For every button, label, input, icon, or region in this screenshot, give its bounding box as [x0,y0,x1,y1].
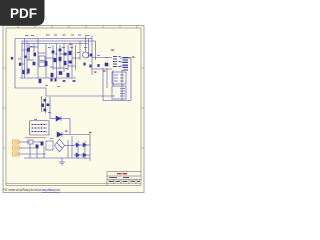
capacitor C15 [42,104,45,108]
wire branch v21 [106,68,108,88]
wire link b [29,46,38,48]
IC U2 pins [45,61,48,66]
wire link g [60,53,68,55]
resistor R5 [59,57,62,61]
connector stub J1 [11,57,13,60]
IC U1 [39,56,45,67]
wire P3 out [19,153,46,155]
PDF badge [0,0,45,26]
wire bridge rail [89,135,91,162]
wire branch v12 [67,45,69,70]
wire drop d [67,140,69,158]
connector J3 [112,86,126,99]
connector P3 [13,152,20,156]
wire branch v19 [95,41,97,60]
title text red [117,173,122,174]
wire mains red [25,137,46,139]
resistor R9 [63,80,66,82]
capacitor C10 [67,73,70,77]
tiny blue text specks [18,35,108,139]
resistor R11 [36,145,39,149]
label R9 [94,72,97,73]
transformer T1 secondary [123,58,129,71]
sheet border frame [6,28,141,186]
wire top bus 1 [15,38,92,40]
component cluster fills [11,48,108,107]
wire branch v15 [79,41,81,60]
wire branch v7 [45,44,47,79]
wire ground bus right [103,100,131,102]
label BR1 [89,132,92,133]
wire drop b [36,149,38,158]
varistor RV1 [41,142,44,146]
wire link e [38,52,46,54]
wire transformer outputs [120,57,131,59]
wire branch v10 [59,45,61,70]
wire secondary out [128,57,131,59]
svg-text:PDF: PDF [10,6,37,21]
wire link j [68,65,76,67]
wire top bus 3 [22,43,88,45]
label T1 [111,50,114,51]
wire top bus 2 [22,40,96,42]
wire link h [72,57,80,59]
wire enclosure left [14,39,16,89]
label C13 [103,71,106,72]
connector J2 [112,72,126,84]
capacitor C6 [64,53,67,56]
wire lower bus [24,157,90,159]
connector P2 [13,146,20,150]
wire branch v3 [26,41,28,75]
wire branch v20 [102,68,104,101]
transformer T1 [113,57,121,67]
title row text [109,177,141,182]
wire link d [20,63,25,65]
diode bridge diamond D7 [55,139,65,152]
zone tick marks left/right [3,68,144,148]
capacitor C9 [51,73,54,77]
wire drop e [71,136,73,158]
title block [107,172,141,186]
wire branch v16 [85,36,87,53]
capacitor C4 [52,51,55,54]
wire link c [27,59,34,61]
capacitor C13 [105,63,109,67]
wire link f [46,57,53,59]
optocoupler U3 [46,141,53,150]
wire diode2 out [62,134,90,136]
wire branch v11 [63,44,65,73]
wire link a [22,49,29,51]
wire inner bus [20,77,76,79]
wire branch v22 [112,70,114,86]
transistor Q1 [83,52,89,58]
wire drop a [29,144,31,158]
wire branch v2 [24,39,26,79]
wire right rail [130,58,132,101]
terminal block TB1 [30,121,50,136]
inner bottom frame line [6,183,141,185]
diode D1 [19,63,21,66]
resistor R1 [33,53,36,57]
resistor R8 [39,79,42,83]
wire branch v23 [121,70,123,101]
capacitor C11 [50,79,52,82]
svg-text:PDF created with pdfFactory tr: PDF created with pdfFactory trial versio… [4,188,61,192]
wire branch v9 [56,44,58,79]
capacitor C14 [44,99,47,102]
wire branch v18 [91,36,93,76]
wire stub top right [85,35,90,37]
wire branch v17 [88,39,90,59]
capacitor C5 [59,49,62,52]
wire f out [33,141,44,143]
capacitor C3 [27,68,29,73]
capacitor C1 [27,48,30,52]
wire branch v14 [75,45,77,70]
capacitor C17 [44,109,47,112]
diode D2 [90,54,93,57]
bridge rectifier BR1 [74,141,90,159]
resistor R13 [89,65,91,68]
capacitor C8 [69,61,72,64]
wire enclosure bottom [15,88,115,96]
wire branch v6 [37,39,39,79]
capacitor C2 [22,70,24,74]
red designator specks [65,44,135,134]
capacitor C18 [97,64,99,67]
wire aux riser2 [49,97,51,119]
wire branch v5 [33,44,35,56]
wire xfmr primary bottom [92,68,112,70]
capacitor C12 [54,79,56,82]
resistor R3 [33,62,36,66]
schematic sheet page [3,26,144,193]
wire branch v13 [71,44,73,79]
wire drop c [43,146,45,158]
resistor R6 [69,51,72,55]
ground [59,158,65,165]
connector P1 [13,140,20,144]
wire aux riser0 [41,96,43,112]
wire xfmr primary top [92,57,112,59]
label D6 [65,131,68,132]
wire aux riser [45,97,47,113]
capacitor C16 [47,104,50,107]
capacitor C7 [64,61,67,65]
label D2 [69,44,72,45]
wire P2 out [19,147,35,149]
wire link i [53,67,64,69]
resistor R4 [54,58,57,62]
label rail [132,57,135,58]
wire P1 out [19,141,30,143]
resistor R10 [73,80,76,82]
wire branch v1 [21,41,23,78]
wire bridge taps [65,145,75,147]
wire branch v4 [28,44,30,61]
resistor R2 [24,55,26,58]
wire branch v8 [52,45,54,70]
zone tick marks top [18,26,137,29]
resistor R7 [59,71,63,75]
diode D6 [57,132,62,137]
wire diode out [61,119,70,135]
resistor R12 [83,63,85,66]
fuse F1 [28,140,33,144]
diode D5 [56,116,61,121]
wire to diode D5 [50,118,56,120]
